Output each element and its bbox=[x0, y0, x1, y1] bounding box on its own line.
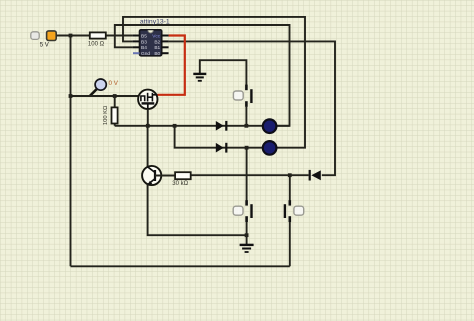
svg-text:30 kΩ: 30 kΩ bbox=[172, 181, 188, 187]
svg-text:100 KΩ: 100 KΩ bbox=[103, 105, 109, 125]
pin B2 bbox=[162, 40, 169, 42]
push button SW2 (lower left) bbox=[233, 148, 251, 236]
push button SW1 (upper) bbox=[233, 85, 251, 126]
wire 5V source to R1 bbox=[57, 35, 90, 37]
wire transistor base to R3 bbox=[155, 175, 175, 177]
svg-text:B0: B0 bbox=[154, 51, 160, 57]
pin B5 bbox=[133, 35, 140, 37]
ground symbol G1 and wire to button SW1 bbox=[193, 60, 246, 85]
MOSFET Q1 bbox=[138, 90, 157, 110]
svg-text:B4: B4 bbox=[141, 45, 147, 51]
diode D1 bbox=[216, 121, 227, 131]
pin B3 bbox=[133, 40, 140, 42]
ground symbol G2 bbox=[240, 235, 254, 252]
svg-text:100 Ω: 100 Ω bbox=[88, 42, 105, 48]
node row1 / MOSFET source bbox=[146, 124, 150, 128]
IC U1 attiny13 bbox=[133, 19, 170, 58]
svg-text:Vcc: Vcc bbox=[152, 33, 161, 39]
node row2 / SW2 bbox=[245, 146, 249, 150]
resistor R3 30kΩ bbox=[172, 172, 190, 187]
diode D2 bbox=[216, 143, 227, 153]
wire row3 (R3 to diode D3) bbox=[192, 174, 309, 176]
wire MOSFET source down to row1 bbox=[147, 109, 149, 126]
svg-text:B1: B1 bbox=[154, 45, 160, 51]
LED LED1 bbox=[263, 119, 277, 133]
wire transistor collector bbox=[147, 126, 149, 167]
wire left rail (5V down to bottom) bbox=[70, 36, 72, 267]
svg-text:attiny13-1: attiny13-1 bbox=[140, 19, 170, 26]
node row1 / SW1 bbox=[245, 124, 249, 128]
resistor R1 100Ω bbox=[88, 32, 133, 47]
wire row2 branch bbox=[175, 126, 277, 148]
node row1 / row2 branch bbox=[173, 124, 177, 128]
wire net B2 (IC pin B2 to diode D3 row) bbox=[169, 41, 335, 175]
node row3 / SW3 bbox=[288, 173, 292, 177]
voltage source V1 5V bbox=[31, 31, 56, 49]
wire net B3 (IC pin B3 to LED2 row right end) bbox=[123, 17, 305, 148]
wire gate row (left rail to MOSFET gate) bbox=[71, 95, 139, 97]
wire transistor emitter down bbox=[148, 185, 247, 236]
voltage probe P1 bbox=[90, 79, 119, 96]
pin Vcc bbox=[162, 35, 169, 37]
node left rail / gate row bbox=[69, 94, 73, 98]
diode D3 (points left) bbox=[310, 170, 321, 181]
pin B0 bbox=[162, 52, 169, 54]
svg-text:B2: B2 bbox=[154, 39, 160, 45]
LED LED2 bbox=[263, 141, 277, 155]
pin B1 bbox=[162, 46, 169, 48]
svg-text:Gnd: Gnd bbox=[141, 51, 150, 57]
svg-text:5 V: 5 V bbox=[40, 42, 49, 48]
svg-text:B3: B3 bbox=[141, 39, 147, 45]
svg-text:0 V: 0 V bbox=[109, 80, 119, 87]
node emitter row / SW2 / G2 bbox=[245, 233, 249, 237]
wire bottom rail bbox=[71, 265, 290, 267]
transistor Q2 bbox=[142, 166, 161, 186]
node A junction 5V rail bbox=[69, 34, 73, 38]
pin B4 bbox=[133, 46, 140, 48]
wire net Vcc (red, IC Vcc to MOSFET drain) bbox=[158, 36, 185, 95]
wire net B4 (IC pin B4 to LED1 row right end) bbox=[115, 25, 290, 126]
node gate row / R2 top bbox=[113, 94, 117, 98]
resistor R2 100KΩ bbox=[103, 96, 117, 126]
svg-text:B5: B5 bbox=[141, 33, 147, 39]
wire row1 (100K bottom to LED1) bbox=[115, 125, 290, 127]
pin Gnd bbox=[133, 52, 140, 54]
push button SW3 (lower right) bbox=[285, 175, 304, 266]
